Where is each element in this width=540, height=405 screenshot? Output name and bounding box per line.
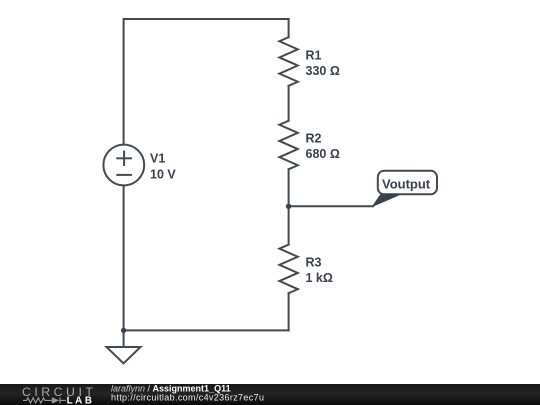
- svg-text:1 kΩ: 1 kΩ: [306, 271, 333, 285]
- CircuitLab logo schematic: wire, resistor, diode: [23, 397, 66, 403]
- wire top horizontal: [124, 18, 289, 20]
- svg-text:LAB: LAB: [67, 395, 95, 405]
- node junction between R2 and R3: [286, 204, 291, 209]
- V1 minus sign: [117, 174, 131, 176]
- wire right vertical top (to R1): [288, 19, 290, 37]
- wire left vertical upper: [123, 19, 125, 145]
- svg-text:R1: R1: [306, 49, 322, 63]
- wire below R3: [288, 293, 290, 330]
- wire bottom horizontal: [124, 329, 289, 331]
- wire between R1 and R2: [288, 86, 290, 121]
- voltage source V1 circle: [103, 145, 144, 186]
- svg-text:10 V: 10 V: [150, 167, 176, 181]
- wire between R2 and R3 through node: [288, 169, 290, 244]
- resistor R3: [279, 245, 297, 294]
- ground triangle: [107, 347, 141, 363]
- resistor R1: [279, 37, 297, 86]
- svg-text:680 Ω: 680 Ω: [306, 147, 340, 161]
- svg-text:R3: R3: [306, 255, 322, 269]
- Voutput flag box: [378, 171, 437, 195]
- svg-text:Voutput: Voutput: [382, 177, 431, 192]
- Voutput flag tail: [372, 194, 404, 208]
- V1 plus sign: [117, 157, 131, 159]
- svg-text:R2: R2: [306, 131, 322, 145]
- svg-text:V1: V1: [150, 152, 165, 166]
- node junction bottom left: [121, 328, 126, 333]
- svg-text:330 Ω: 330 Ω: [306, 64, 340, 78]
- wire Voutput horizontal: [289, 205, 373, 207]
- wire left vertical lower: [123, 185, 125, 330]
- ground stub: [123, 330, 125, 347]
- resistor R2: [279, 121, 297, 170]
- svg-text:http://circuitlab.com/c4v236rz: http://circuitlab.com/c4v236rz7ec7u: [111, 392, 264, 402]
